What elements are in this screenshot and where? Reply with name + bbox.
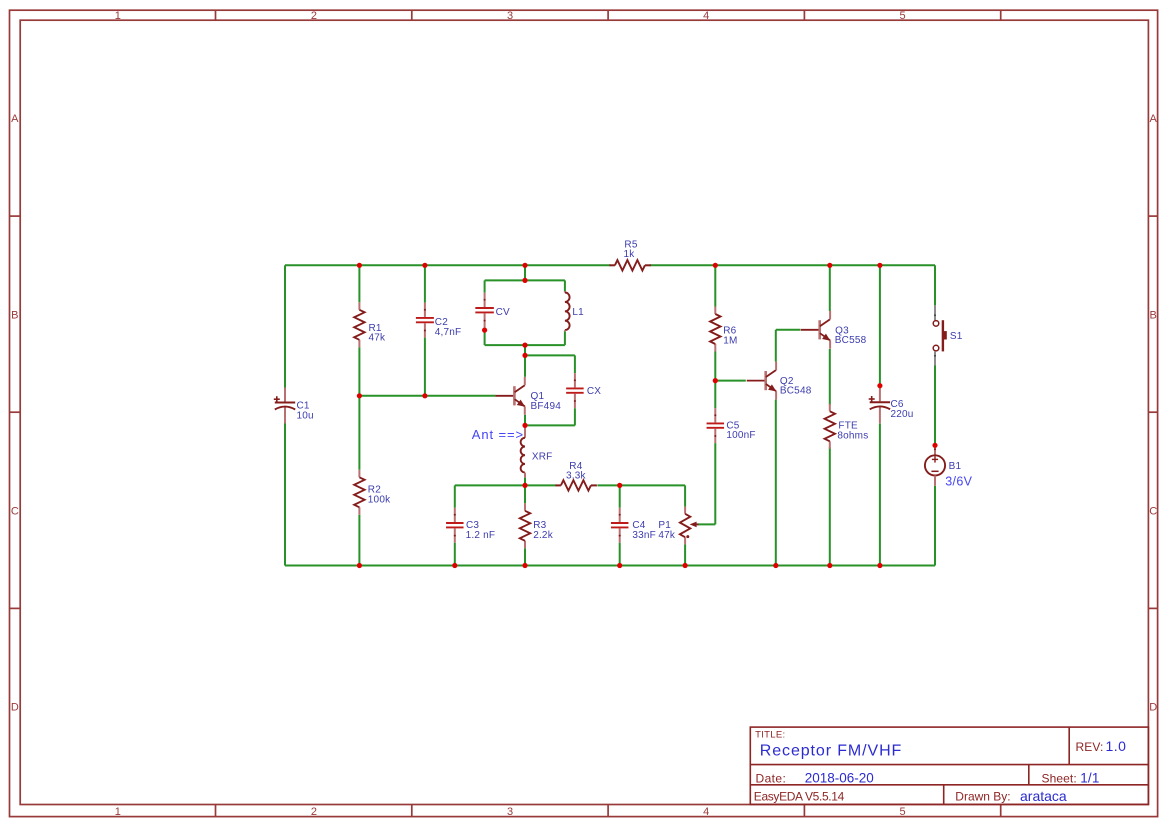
transistor Q2 [747,362,812,400]
svg-text:CV: CV [496,307,510,318]
wire [524,485,526,503]
inductor L1 [565,291,584,331]
wire [715,380,746,382]
junction [522,353,527,358]
wire [455,484,556,486]
wire [485,344,565,346]
junction [877,383,882,388]
junction [713,263,718,268]
resistor R5 [609,240,651,271]
capacitor C1 [274,388,314,424]
capacitor C2 [416,303,461,338]
svg-text:D: D [1149,702,1157,714]
svg-text:5: 5 [899,806,905,818]
svg-text:C: C [11,505,19,517]
capacitor CX [566,373,601,408]
junction [422,393,427,398]
svg-text:XRF: XRF [532,452,553,463]
wire [879,424,881,566]
svg-text:2.2k: 2.2k [533,530,554,541]
svg-text:33nF: 33nF [632,530,656,541]
wire [424,265,426,302]
battery B1 [925,445,973,488]
wire [829,447,831,565]
resistor FTE (speaker) [825,404,869,449]
svg-text:220u: 220u [891,409,914,420]
wire [564,280,566,291]
svg-text:Drawn By:: Drawn By: [955,790,1010,804]
svg-text:1.2 nF: 1.2 nF [466,530,496,541]
svg-text:5: 5 [899,10,905,22]
svg-text:3: 3 [507,806,513,818]
wire [525,354,575,356]
svg-text:3/6V: 3/6V [945,474,972,488]
junction [617,563,622,568]
wire [776,329,801,331]
resistor R1 [354,302,386,347]
svg-text:A: A [1150,113,1158,125]
wire [879,265,881,385]
svg-text:D: D [11,702,19,714]
wire [574,355,576,373]
svg-text:1: 1 [115,806,121,818]
wire [358,265,360,302]
svg-text:8ohms: 8ohms [837,430,868,441]
svg-text:2: 2 [311,806,317,818]
wire [714,265,716,306]
wire [650,264,935,266]
resistor R2 [354,470,391,515]
wire [284,424,286,566]
svg-text:REV:: REV: [1076,740,1104,754]
svg-text:Sheet:: Sheet: [1042,771,1077,785]
junction [713,378,718,383]
wire [934,366,936,446]
inductor XRF [521,425,553,477]
potentiometer P1 [658,507,698,545]
wire [619,543,621,566]
svg-text:EasyEDA V5.5.14: EasyEDA V5.5.14 [754,790,845,804]
wire [485,279,565,281]
wire [619,485,621,507]
wire [285,565,935,567]
svg-text:CX: CX [587,386,601,397]
wire [524,355,526,376]
svg-text:B: B [11,309,18,321]
svg-text:BF494: BF494 [531,401,562,412]
svg-text:S1: S1 [950,331,963,342]
junction [422,263,427,268]
svg-text:Date:: Date: [756,771,787,785]
wire [934,486,936,566]
capacitor C5 [707,408,756,443]
svg-text:3: 3 [507,10,513,22]
svg-text:B: B [1150,309,1157,321]
wire [574,408,576,425]
title block [750,727,1148,804]
svg-text:4,7nF: 4,7nF [435,327,462,338]
svg-text:arataca: arataca [1020,788,1067,804]
wire [358,515,360,566]
svg-text:4: 4 [703,10,709,22]
junction [877,263,882,268]
capacitor C3 [446,508,495,543]
junction [827,563,832,568]
wire [934,265,936,305]
wire [714,381,716,409]
wire [684,544,686,565]
wire [524,478,526,486]
svg-text:4: 4 [703,806,709,818]
wire [524,548,526,565]
wire [698,523,716,525]
junction [452,563,457,568]
resistor R4 [555,461,597,491]
wire [775,400,777,566]
svg-text:BC548: BC548 [780,386,812,397]
wire [424,338,426,396]
wire [358,347,360,470]
svg-text:Ant ==>: Ant ==> [472,427,524,442]
wire [714,352,716,381]
svg-text:TITLE:: TITLE: [755,730,785,741]
svg-text:Receptor FM/VHF: Receptor FM/VHF [760,742,902,759]
wire [684,485,686,506]
junction [827,263,832,268]
wire [564,331,566,345]
svg-text:1: 1 [115,10,121,22]
wire [714,443,716,524]
capacitor C6 [869,387,914,423]
junction [357,263,362,268]
junction [522,278,527,283]
junction [932,443,937,448]
svg-text:1k: 1k [624,249,636,260]
svg-text:1.0: 1.0 [1106,738,1127,754]
resistor R3 [520,503,554,548]
svg-text:47k: 47k [658,530,676,541]
svg-text:10u: 10u [297,410,314,421]
junction [522,263,527,268]
wire [484,328,486,345]
wire [285,264,610,266]
svg-text:100k: 100k [368,494,391,505]
wire [775,330,777,362]
wire [524,415,526,426]
wire [454,485,456,507]
wire [284,265,286,387]
wire [525,424,575,426]
transistor Q1 [495,377,561,415]
junction [522,563,527,568]
svg-text:100nF: 100nF [726,430,755,441]
svg-text:2018-06-20: 2018-06-20 [805,771,874,786]
svg-text:A: A [11,113,19,125]
wire [484,280,486,292]
wire [597,484,685,486]
capacitor CV [475,293,510,328]
switch S1 [933,305,963,366]
junction [357,563,362,568]
wire [524,265,526,280]
svg-text:L1: L1 [572,307,584,318]
junction [773,563,778,568]
junction [522,423,527,428]
wire [829,265,831,311]
junction [482,328,487,333]
wire [829,349,831,405]
svg-text:1M: 1M [723,335,737,346]
junction [877,563,882,568]
junction [683,563,688,568]
junction [522,483,527,488]
capacitor C4 [611,508,656,543]
svg-text:B1: B1 [949,461,962,472]
wire [524,345,526,355]
wire [359,395,495,397]
wire [454,543,456,566]
junction [522,343,527,348]
transistor Q3 [801,311,867,349]
junction [357,393,362,398]
svg-text:BC558: BC558 [835,335,867,346]
svg-text:C: C [1149,505,1157,517]
svg-text:47k: 47k [369,333,387,344]
svg-text:2: 2 [311,10,317,22]
svg-text:3.3k: 3.3k [566,471,587,482]
junction [617,483,622,488]
resistor R6 [710,307,737,352]
svg-text:1/1: 1/1 [1080,771,1099,786]
